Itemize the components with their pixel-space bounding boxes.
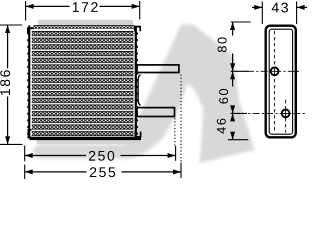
top tank (gray bar) <box>38 20 133 26</box>
dim 46 text <box>217 119 226 134</box>
dim 43 text <box>272 3 288 13</box>
dim 255 extension line left <box>24 165 26 180</box>
bottom pipe <box>137 108 175 117</box>
dim 186 line <box>7 25 9 69</box>
horizontal centerline lower pipe <box>239 112 306 114</box>
dim 250 extension line left <box>24 146 26 162</box>
chain tick at upper pipe axis <box>231 70 249 72</box>
top header crimp wave <box>34 27 136 28</box>
dim 186 extension line top <box>0 24 22 26</box>
left bottom hook <box>28 130 31 138</box>
right side plate <box>135 26 138 137</box>
dim 186 text <box>0 70 10 95</box>
dim 43 extension line left <box>261 2 263 25</box>
horizontal centerline upper pipe <box>247 70 302 72</box>
dim 255 extension dotted from pipe <box>180 75 182 163</box>
left side plate <box>27 26 30 137</box>
chain tick top <box>231 21 251 23</box>
vertical centerline through lower pipe <box>285 100 287 133</box>
dim 172 extension line right <box>139 1 141 20</box>
watermark logo A (brand watermark, light gray) <box>33 25 254 164</box>
dim 186 extension line bottom <box>0 143 23 145</box>
dim 80 text <box>218 37 227 52</box>
top header plate (black bar) <box>34 25 135 28</box>
chain tick bottom <box>228 139 248 141</box>
dim 172 line <box>26 5 70 7</box>
dim 172 text <box>73 2 98 12</box>
right top hook <box>135 27 140 32</box>
bottom tank (gray bar) <box>37 140 141 144</box>
dim 250 text <box>89 151 114 161</box>
dim 255 text <box>90 167 115 177</box>
lower pipe end circle <box>282 110 290 118</box>
side view inner outline <box>269 29 292 134</box>
dim 255 line <box>25 171 87 173</box>
vertical centerline through upper pipe <box>274 31 276 132</box>
bottom header plate (black bar) <box>30 137 142 140</box>
dim 43 line <box>252 6 262 8</box>
left top hook <box>28 28 34 33</box>
dim 172 extension line left <box>25 1 27 21</box>
right bottom hook <box>136 131 141 137</box>
chain dim line <box>232 22 234 36</box>
side view outer shell <box>266 26 296 138</box>
dim 250 extension dotted from pipe <box>174 118 176 146</box>
dim 250 line <box>25 155 86 157</box>
inter-pipe tank contour <box>138 75 140 106</box>
dim 43 extension line right <box>296 2 298 25</box>
chain tick at lower pipe axis <box>231 112 247 114</box>
top pipe <box>137 65 179 73</box>
upper pipe end circle <box>271 67 279 75</box>
dim 60 text <box>219 89 228 104</box>
core fin matrix (opaque white backing) <box>32 29 134 137</box>
